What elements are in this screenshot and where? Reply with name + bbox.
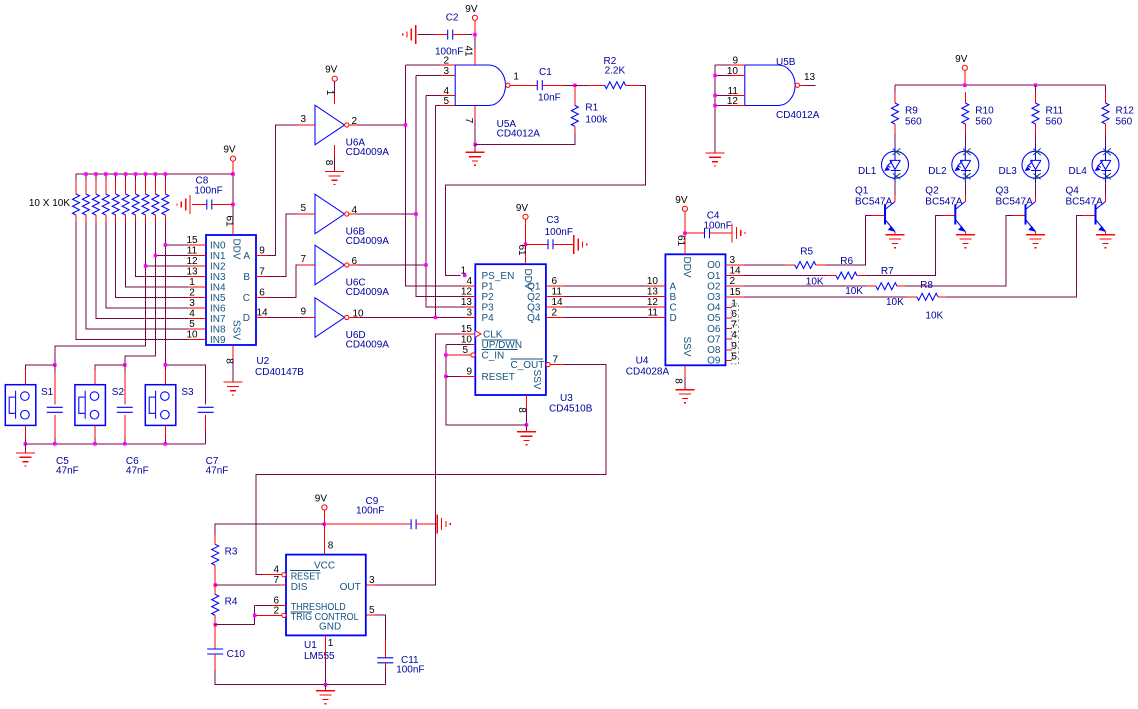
svg-text:5: 5 bbox=[462, 345, 468, 356]
pin 5 input of U5A bbox=[441, 105, 456, 107]
svg-text:R11: R11 bbox=[1046, 106, 1064, 117]
wire pull-up column 6 to IN3 bbox=[136, 222, 188, 277]
capacitor C8 100nF bbox=[192, 204, 207, 206]
svg-text:15: 15 bbox=[186, 235, 198, 246]
resistor R11 560 bbox=[1035, 92, 1037, 103]
pin 2 Q4 of U3 bbox=[546, 317, 564, 319]
svg-text:2: 2 bbox=[730, 276, 736, 287]
pin 5 CONTROL of U1 bbox=[366, 614, 375, 616]
pin 13 IN3 of U2 bbox=[188, 276, 206, 278]
svg-text:47nF: 47nF bbox=[126, 466, 149, 477]
junction IN0 tap bbox=[164, 243, 168, 247]
pin 9 input of U5B bbox=[731, 64, 745, 66]
IC U4 CD4028A body bbox=[665, 254, 725, 365]
wire B to U6B input bbox=[267, 214, 298, 277]
svg-text:O0: O0 bbox=[707, 260, 721, 271]
resistor R9 560 bbox=[894, 92, 896, 103]
svg-text:7: 7 bbox=[259, 267, 265, 278]
svg-text:Q2: Q2 bbox=[527, 292, 541, 303]
wire ground stem (U1) bbox=[325, 685, 327, 691]
wire pull-up column 2 to IN7 bbox=[96, 222, 188, 319]
pin 10 output of U6D bbox=[349, 317, 359, 319]
wire U6C output bbox=[357, 264, 426, 266]
wire pull-up column 0 to IN9 bbox=[76, 222, 188, 340]
junction GND rail bbox=[324, 683, 328, 687]
wire LED 9V rail bbox=[964, 70, 966, 85]
wire DL3 to Q3 collector bbox=[1035, 182, 1037, 195]
svg-text:P2: P2 bbox=[482, 292, 495, 303]
resistor array R0 (10K) bbox=[75, 180, 77, 194]
junction rail/R10 bbox=[963, 83, 967, 87]
junction ground rail S2 bbox=[93, 442, 97, 446]
junction bus2/U6B bbox=[414, 212, 418, 216]
svg-text:15: 15 bbox=[461, 324, 473, 335]
ground (U5A) bbox=[474, 145, 476, 153]
svg-text:CD40147B: CD40147B bbox=[255, 367, 304, 378]
pin 6 output of U6C bbox=[349, 264, 357, 266]
svg-text:6: 6 bbox=[259, 288, 265, 299]
wire A to U6A input bbox=[267, 125, 298, 256]
svg-text:61: 61 bbox=[223, 215, 234, 227]
LED DL2 bbox=[952, 146, 979, 182]
svg-text:2: 2 bbox=[273, 605, 279, 616]
pin 8 VSS of U6A bbox=[334, 145, 336, 156]
pin 15 IN0 of U2 bbox=[188, 244, 206, 246]
capacitor C7 47nF bbox=[198, 407, 214, 412]
svg-text:IN8: IN8 bbox=[210, 325, 226, 336]
wire C to U6C input bbox=[267, 265, 298, 298]
svg-text:9: 9 bbox=[300, 307, 306, 318]
junction IN1 tap bbox=[154, 254, 158, 258]
pin 15 O3 of U4 bbox=[726, 296, 745, 298]
resistor R1 100k bbox=[574, 85, 576, 105]
wire TRIG/THRESHOLD connection bbox=[215, 615, 255, 624]
power 9V supply (U2/C8 rail) bbox=[230, 156, 235, 161]
svg-text:R3: R3 bbox=[225, 546, 238, 557]
svg-text:LM555: LM555 bbox=[304, 651, 335, 662]
wire Q3 to U4 C bbox=[564, 306, 647, 308]
svg-text:1: 1 bbox=[328, 638, 334, 649]
junction C2/9V bbox=[473, 33, 477, 37]
svg-text:C10: C10 bbox=[227, 649, 246, 660]
power 9V supply (U5A/C2) bbox=[472, 15, 477, 20]
svg-text:4: 4 bbox=[352, 205, 358, 216]
svg-text:CD4012A: CD4012A bbox=[776, 110, 820, 121]
junction TRIG/THRESHOLD bbox=[253, 614, 257, 618]
svg-text:7: 7 bbox=[463, 118, 474, 124]
svg-text:11: 11 bbox=[187, 246, 198, 257]
svg-text:560: 560 bbox=[1046, 117, 1063, 128]
wire Q2 emitter to ground bbox=[964, 232, 966, 235]
wire R7 to Q3 base bbox=[906, 216, 1013, 287]
svg-text:1: 1 bbox=[513, 72, 519, 83]
svg-text:100nF: 100nF bbox=[435, 47, 463, 58]
resistor array R9 (10K) bbox=[164, 180, 166, 194]
svg-text:14: 14 bbox=[256, 308, 268, 319]
wire DL4 to Q4 collector bbox=[1105, 182, 1107, 195]
wire S3 top connection bbox=[164, 365, 166, 370]
pin 1 GND of U1 bbox=[325, 635, 327, 660]
svg-text:DL2: DL2 bbox=[928, 166, 947, 177]
wire Q3 emitter to ground bbox=[1035, 232, 1037, 235]
junction ground rail C5 bbox=[53, 442, 57, 446]
svg-text:C2: C2 bbox=[446, 12, 459, 23]
svg-text:CD4012A: CD4012A bbox=[497, 129, 541, 140]
svg-text:11: 11 bbox=[648, 308, 659, 319]
IC U2 CD40147B body bbox=[206, 235, 256, 345]
svg-text:9: 9 bbox=[259, 246, 265, 257]
svg-text:IN4: IN4 bbox=[210, 283, 226, 294]
svg-text:100nF: 100nF bbox=[396, 664, 424, 675]
svg-text:U2: U2 bbox=[256, 356, 269, 367]
svg-text:12: 12 bbox=[461, 286, 473, 297]
svg-text:5: 5 bbox=[300, 203, 306, 214]
svg-text:B: B bbox=[670, 292, 677, 303]
wire pull-up column 3 to IN6 bbox=[106, 222, 188, 308]
wire U5A VSS to R1 bottom bbox=[475, 133, 575, 145]
ground (U3) bbox=[517, 432, 536, 445]
pin 7 B of U2 bbox=[256, 276, 267, 278]
svg-text:5: 5 bbox=[443, 96, 449, 107]
junction VSS/ground tie bbox=[525, 423, 529, 427]
pin 8 VCC of U1 bbox=[323, 510, 325, 524]
svg-text:DDV: DDV bbox=[522, 268, 533, 289]
wire OUT to CLK bbox=[375, 334, 460, 585]
capacitor C11 100nF bbox=[375, 615, 385, 640]
svg-text:8: 8 bbox=[672, 378, 683, 384]
svg-text:O5: O5 bbox=[707, 313, 721, 324]
svg-text:9: 9 bbox=[466, 366, 472, 377]
junction IN2 tap bbox=[144, 264, 148, 268]
wire U6D output bbox=[359, 317, 436, 319]
wire Q4 to U4 D bbox=[564, 317, 647, 319]
resistor array R6 (10K) bbox=[135, 180, 137, 194]
svg-text:Q4: Q4 bbox=[527, 313, 541, 324]
pin 14 D of U2 bbox=[256, 317, 267, 319]
svg-text:IN3: IN3 bbox=[210, 272, 226, 283]
junction PS_EN bbox=[463, 274, 467, 278]
pin 12 IN2 of U2 bbox=[188, 265, 206, 267]
ground (U5B) bbox=[706, 153, 725, 166]
pin 2 IN5 of U2 bbox=[188, 297, 206, 299]
svg-text:CD4009A: CD4009A bbox=[346, 287, 390, 298]
pin 6 C of U2 bbox=[256, 297, 267, 299]
svg-text:10: 10 bbox=[186, 330, 198, 341]
capacitor C6 47nF bbox=[124, 365, 126, 372]
svg-text:VCC: VCC bbox=[314, 561, 335, 572]
svg-text:8: 8 bbox=[223, 358, 234, 364]
svg-text:10: 10 bbox=[647, 276, 659, 287]
svg-text:A: A bbox=[243, 251, 250, 262]
inverter U6B CD4009A bbox=[315, 194, 345, 234]
svg-text:BC547A: BC547A bbox=[996, 197, 1034, 208]
capacitor C10 bbox=[214, 625, 216, 649]
IC U3 CD4510B body bbox=[475, 264, 546, 395]
svg-text:Q3: Q3 bbox=[996, 186, 1010, 197]
resistor array R7 (10K) bbox=[144, 180, 146, 194]
svg-text:DL3: DL3 bbox=[999, 166, 1018, 177]
junction C3/9V bbox=[524, 243, 528, 247]
svg-text:CLK: CLK bbox=[483, 330, 503, 341]
wire Q2 base stub bbox=[942, 215, 954, 217]
pin 12 input of U5B bbox=[731, 105, 745, 107]
svg-text:4: 4 bbox=[466, 276, 472, 287]
ground (Q2) bbox=[956, 235, 975, 248]
junction 9V/C9/R3 bbox=[323, 522, 327, 526]
svg-text:DL1: DL1 bbox=[858, 166, 877, 177]
svg-text:7: 7 bbox=[553, 355, 559, 366]
ground (Q4) bbox=[1096, 235, 1115, 248]
svg-text:9V: 9V bbox=[955, 54, 968, 65]
pin 11 D of U4 bbox=[647, 317, 665, 319]
capacitor C3 100nF bbox=[526, 243, 549, 245]
svg-text:13: 13 bbox=[647, 286, 659, 297]
wire 9V to R3 bbox=[215, 524, 324, 535]
svg-text:Q1: Q1 bbox=[855, 186, 869, 197]
svg-text:GND: GND bbox=[319, 621, 341, 632]
svg-text:9V: 9V bbox=[675, 195, 688, 206]
wire R10 to DL2 bbox=[964, 134, 966, 146]
svg-text:11: 11 bbox=[552, 286, 563, 297]
svg-text:SSV: SSV bbox=[531, 369, 542, 389]
svg-text:Q3: Q3 bbox=[527, 303, 541, 314]
LED DL4 bbox=[1092, 146, 1119, 182]
svg-text:61: 61 bbox=[516, 244, 527, 256]
power 9V supply (U1/C9) bbox=[322, 505, 327, 510]
svg-text:O7: O7 bbox=[707, 334, 721, 345]
pin 1 output of U5A bbox=[510, 84, 529, 86]
resistor R5 10K bbox=[744, 264, 785, 266]
resistor array R4 (10K) bbox=[115, 180, 117, 194]
ground (C4) bbox=[732, 224, 745, 243]
svg-text:SSV: SSV bbox=[231, 320, 242, 340]
svg-text:7: 7 bbox=[273, 575, 279, 586]
svg-text:10nF: 10nF bbox=[538, 93, 561, 104]
junction C4/9V bbox=[683, 231, 687, 235]
inverter U6C CD4009A bbox=[315, 245, 345, 285]
LED DL3 bbox=[1022, 146, 1049, 182]
resistor R10 560 bbox=[964, 92, 966, 103]
resistor array R8 (10K) bbox=[154, 180, 156, 194]
junction S1/C5 bbox=[53, 363, 57, 367]
svg-text:DDV: DDV bbox=[681, 256, 692, 277]
capacitor C4 100nF bbox=[685, 232, 705, 234]
pin 2 input of U5A bbox=[441, 64, 456, 66]
pin 9 RESET of U3 bbox=[461, 375, 476, 377]
svg-text:13: 13 bbox=[804, 72, 816, 83]
svg-text:CD4009A: CD4009A bbox=[346, 340, 390, 351]
pin 3 input of U5A bbox=[441, 75, 456, 77]
resistor R3 bbox=[212, 544, 219, 565]
svg-text:560: 560 bbox=[905, 117, 922, 128]
svg-text:O9: O9 bbox=[707, 356, 721, 367]
svg-text:2: 2 bbox=[552, 308, 558, 319]
svg-text:U5B: U5B bbox=[776, 57, 796, 68]
switch S3 bbox=[145, 385, 176, 426]
pin 14 O1 of U4 bbox=[726, 275, 745, 277]
wire R12 to DL4 bbox=[1105, 134, 1107, 146]
wire DL2 to Q2 collector bbox=[964, 182, 966, 195]
wire Q4 emitter to ground bbox=[1105, 232, 1107, 235]
wire R12 column bbox=[1105, 85, 1107, 92]
svg-text:S2: S2 bbox=[112, 387, 125, 398]
pin 4 input of U5A bbox=[441, 95, 456, 97]
wire R9 to DL1 bbox=[894, 134, 896, 146]
svg-text:100nF: 100nF bbox=[356, 506, 384, 517]
pin 5 input of U6B bbox=[298, 213, 316, 215]
svg-text:R12: R12 bbox=[1116, 106, 1135, 117]
svg-text:3: 3 bbox=[466, 308, 472, 319]
inverter U6D CD4009A bbox=[315, 298, 345, 338]
svg-text:560: 560 bbox=[1116, 117, 1133, 128]
junction ground rail C6 bbox=[123, 442, 127, 446]
svg-text:IN6: IN6 bbox=[210, 304, 226, 315]
svg-text:U1: U1 bbox=[304, 640, 317, 651]
pin 6 O5 of U4 bbox=[726, 317, 732, 319]
NAND gate U5A CD4012A bbox=[455, 65, 505, 106]
svg-text:P3: P3 bbox=[482, 303, 495, 314]
svg-text:CD4009A: CD4009A bbox=[346, 147, 390, 158]
svg-text:9V: 9V bbox=[465, 4, 478, 15]
pin 7 input of U6C bbox=[298, 264, 316, 266]
svg-text:10K: 10K bbox=[806, 276, 824, 287]
svg-text:6: 6 bbox=[352, 256, 358, 267]
svg-text:O1: O1 bbox=[707, 271, 721, 282]
svg-text:IN0: IN0 bbox=[210, 241, 226, 252]
pin 3 IN6 of U2 bbox=[188, 307, 206, 309]
junction S2/C6 bbox=[123, 363, 127, 367]
svg-text:RESET: RESET bbox=[482, 372, 515, 383]
wire pull-up top rail bbox=[76, 173, 233, 175]
pin 7 O6 of U4 bbox=[726, 328, 732, 330]
junction R3/R4/DIS bbox=[213, 583, 217, 587]
switch S1 bbox=[5, 385, 36, 426]
wire R11 to DL3 bbox=[1035, 134, 1037, 146]
svg-text:P1: P1 bbox=[482, 281, 495, 292]
pin 5 O9 of U4 bbox=[726, 359, 732, 361]
svg-text:R8: R8 bbox=[920, 280, 933, 291]
pin 11 IN1 of U2 bbox=[188, 255, 206, 257]
wire pull-up column 7 (S1 net) to IN2 and S1 bbox=[55, 222, 146, 365]
pin 3 OUT of U1 bbox=[366, 584, 375, 586]
pin 9 input of U6D bbox=[303, 317, 315, 319]
capacitor C9 100nF bbox=[326, 523, 411, 525]
pin 4 O7 of U4 bbox=[726, 338, 732, 340]
wire switch ground rail bbox=[25, 438, 205, 444]
wire bus3 to U5A pin4 bbox=[426, 95, 441, 97]
svg-text:U4: U4 bbox=[636, 356, 649, 367]
ground (C2) bbox=[403, 25, 416, 44]
wire D to U6D input bbox=[267, 317, 303, 319]
wire Q1 emitter to ground bbox=[894, 232, 896, 235]
wire pull-up column 5 to IN4 bbox=[126, 222, 188, 287]
svg-text:8: 8 bbox=[328, 541, 334, 552]
svg-text:C3: C3 bbox=[546, 215, 559, 226]
wire R11 column bbox=[1035, 85, 1037, 92]
resistor R7 10K bbox=[744, 285, 866, 287]
pin 16 VDD of U2 bbox=[232, 222, 234, 235]
pin 10 UP/DWN of U3 bbox=[471, 344, 475, 346]
wire R9 column bbox=[894, 85, 896, 92]
wire Q1 to U4 A bbox=[564, 285, 647, 287]
pin 4 output of U6B bbox=[349, 213, 357, 215]
svg-text:10K: 10K bbox=[845, 286, 863, 297]
pin 7 DIS of U1 bbox=[280, 584, 286, 586]
transistor Q2 BC547A bbox=[955, 202, 965, 232]
transistor Q3 BC547A bbox=[1026, 202, 1036, 232]
svg-text:4: 4 bbox=[189, 309, 195, 320]
switch S2 bbox=[75, 385, 106, 426]
resistor array R3 (10K) bbox=[105, 180, 107, 194]
pin 5 C_IN of U3 bbox=[471, 353, 475, 357]
wire bus4 vertical (P4 net) bbox=[436, 106, 465, 318]
ground (C3) bbox=[574, 235, 587, 254]
svg-text:R10: R10 bbox=[975, 106, 994, 117]
resistor R6 10K bbox=[744, 275, 826, 277]
svg-text:100nF: 100nF bbox=[545, 227, 573, 238]
wire R5 to Q1 base bbox=[826, 216, 873, 266]
svg-text:47nF: 47nF bbox=[206, 466, 229, 477]
pin 1 IN4 of U2 bbox=[188, 286, 206, 288]
capacitor C2 100nF bbox=[418, 34, 435, 36]
svg-text:10: 10 bbox=[461, 335, 473, 346]
wire bus1 to U5A pin2 bbox=[406, 64, 441, 66]
svg-text:100nF: 100nF bbox=[704, 221, 732, 232]
pin 4 P1 of U3 bbox=[465, 285, 476, 287]
pin 15 CLK of U3 bbox=[461, 333, 476, 335]
wire R6 to Q2 base bbox=[866, 216, 942, 276]
junction RESET tie bbox=[444, 375, 448, 379]
svg-text:D: D bbox=[243, 313, 250, 324]
pin 4 RESET of U1 bbox=[282, 573, 286, 577]
wire pull-up column 8 (S2 net) to IN1 and S2 bbox=[125, 222, 156, 365]
svg-text:6: 6 bbox=[552, 276, 558, 287]
svg-text:1: 1 bbox=[324, 90, 335, 96]
wire S2 top connection bbox=[95, 365, 125, 370]
svg-text:10K: 10K bbox=[886, 297, 904, 308]
svg-text:O2: O2 bbox=[707, 281, 721, 292]
pin 14 VDD of U5A bbox=[474, 20, 476, 34]
pin 7 VSS of U5A bbox=[474, 106, 476, 121]
svg-text:D: D bbox=[670, 313, 677, 324]
svg-text:BC547A: BC547A bbox=[1066, 197, 1104, 208]
svg-text:1: 1 bbox=[460, 265, 466, 276]
svg-text:13: 13 bbox=[186, 267, 198, 278]
wire UP/DWN,C_IN,RESET to ground bbox=[446, 344, 471, 346]
pin 3 O0 of U4 bbox=[726, 264, 745, 266]
svg-text:BC547A: BC547A bbox=[925, 197, 963, 208]
svg-text:560: 560 bbox=[975, 117, 992, 128]
pin 13 B of U4 bbox=[647, 295, 665, 297]
svg-text:3: 3 bbox=[189, 298, 195, 309]
junction C_IN tie bbox=[444, 353, 448, 357]
ground (C9) bbox=[437, 515, 450, 534]
resistor array R1 (10K) bbox=[85, 180, 87, 194]
capacitor C1 10nF bbox=[512, 84, 538, 86]
wire bottom ground rail bbox=[215, 668, 385, 685]
svg-text:5: 5 bbox=[189, 319, 195, 330]
resistor R12 560 bbox=[1105, 92, 1107, 103]
pin 12 C of U4 bbox=[647, 306, 665, 308]
resistor R2 2.2K bbox=[588, 84, 605, 86]
svg-text:10 X 10K: 10 X 10K bbox=[29, 198, 70, 209]
wire U6B output bbox=[357, 213, 416, 215]
pin 5 IN8 of U2 bbox=[188, 328, 206, 330]
pin 6 THRESHOLD of U1 bbox=[271, 604, 286, 606]
IC U1 LM555 body bbox=[286, 555, 366, 636]
pin 13 P3 of U3 bbox=[465, 306, 476, 308]
pin 8 VSS of U2 bbox=[232, 345, 234, 358]
